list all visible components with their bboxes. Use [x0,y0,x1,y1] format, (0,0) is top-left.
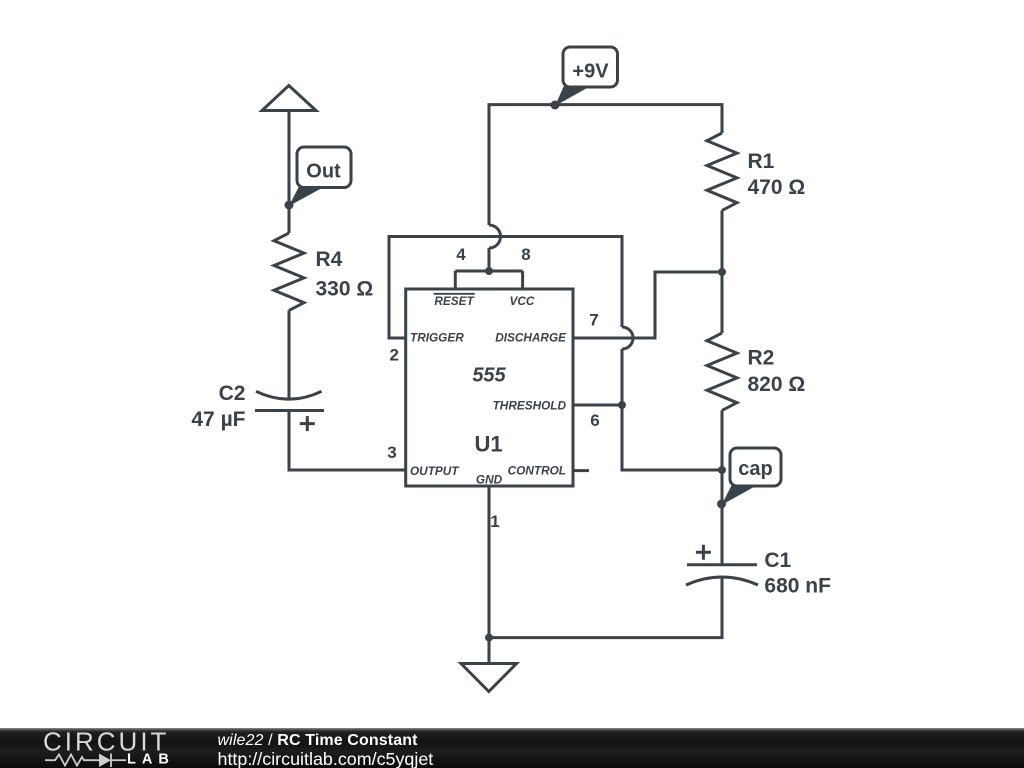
svg-text:DISCHARGE: DISCHARGE [495,331,567,345]
wire R2 bottom to cap node [721,410,724,565]
svg-text:http://circuitlab.com/c5yqjet: http://circuitlab.com/c5yqjet [218,749,434,768]
svg-text:GND: GND [476,472,503,486]
resistor R4 [274,233,304,310]
svg-text:47 µF: 47 µF [191,408,245,431]
svg-text:R1: R1 [748,150,775,173]
capacitor C1 [686,545,758,585]
node dot Out attach [285,201,294,210]
wire to ground symbol [488,638,491,664]
svg-text:8: 8 [521,245,530,264]
svg-text:7: 7 [589,311,598,330]
svg-text:820 Ω: 820 Ω [748,373,806,396]
svg-text:4: 4 [456,245,466,264]
ground [461,664,517,692]
svg-text:cap: cap [738,458,772,480]
wire pin8 stub [521,271,524,289]
svg-text:U1: U1 [474,432,502,457]
net flag +9V callout [555,47,618,106]
svg-text:Out: Out [306,161,341,183]
svg-text:C2: C2 [219,382,246,405]
label R4 value [316,248,374,301]
label R1 value [748,150,806,199]
resistor R2 [707,333,737,410]
footer bar [0,728,1024,768]
svg-text:C1: C1 [764,549,791,572]
svg-text:THRESHOLD: THRESHOLD [493,398,567,412]
junction dot threshold [618,401,626,409]
wire threshold stub [573,404,622,407]
junction dot ground rail [485,634,493,642]
svg-text:470 Ω: 470 Ω [748,176,806,199]
node dot cap attach [717,500,726,509]
junction dot threshold-cap [718,466,726,474]
junction dot R1-R2 [718,268,726,276]
wire trigger net to cap [622,349,722,470]
svg-text:3: 3 [387,443,396,462]
svg-text:wile22 / RC Time Constant: wile22 / RC Time Constant [218,732,419,749]
svg-text:VCC: VCC [510,294,535,308]
svg-text:CONTROL: CONTROL [508,464,566,478]
label C2 value [191,382,245,431]
svg-text:2: 2 [390,346,399,365]
wire reset-vcc bracket [455,270,522,273]
label C1 value [764,549,831,598]
net flag cap callout [722,448,782,505]
svg-text:330 Ω: 330 Ω [316,278,374,301]
wire hop over trigger net [489,225,501,248]
capacitor C2 [255,391,324,431]
wire gnd pin 1 [488,486,491,638]
svg-text:R2: R2 [748,347,775,370]
wire control stub [573,469,589,472]
svg-text:OUTPUT: OUTPUT [410,464,460,478]
wire to pins 4 and 8 [488,248,491,271]
net flag Out callout [289,147,351,206]
label R2 value [748,347,806,397]
pin label RESET [434,294,476,308]
svg-text:R4: R4 [316,248,343,271]
wire discharge net [573,272,722,338]
op-amp U1 555 body [406,289,573,486]
node dot +9V attach [551,101,560,110]
svg-text:LAB: LAB [127,752,175,768]
wire output net [289,411,406,471]
wire R4 to C2 [288,310,291,398]
wire hop over discharge [622,327,633,349]
wire pin4 stub [454,271,457,289]
out flag antenna triangle [262,86,316,111]
wire out net vertical [288,111,291,234]
svg-text:TRIGGER: TRIGGER [410,331,464,345]
resistor R1 [707,133,737,210]
wire +9V rail [489,105,722,225]
svg-text:555: 555 [472,365,506,387]
wire bottom rail [489,577,722,638]
svg-text:6: 6 [590,411,599,430]
logo resistor-diode glyph [45,754,126,768]
svg-text:1: 1 [490,512,499,531]
svg-text:RESET: RESET [434,294,475,308]
svg-text:680 nF: 680 nF [764,575,831,598]
svg-text:+9V: +9V [572,61,609,83]
wire R2 top [721,272,724,333]
junction dot pins 4-8 [485,267,493,275]
wire R1 bottom to junction [721,210,724,272]
wire trigger net [389,237,622,339]
